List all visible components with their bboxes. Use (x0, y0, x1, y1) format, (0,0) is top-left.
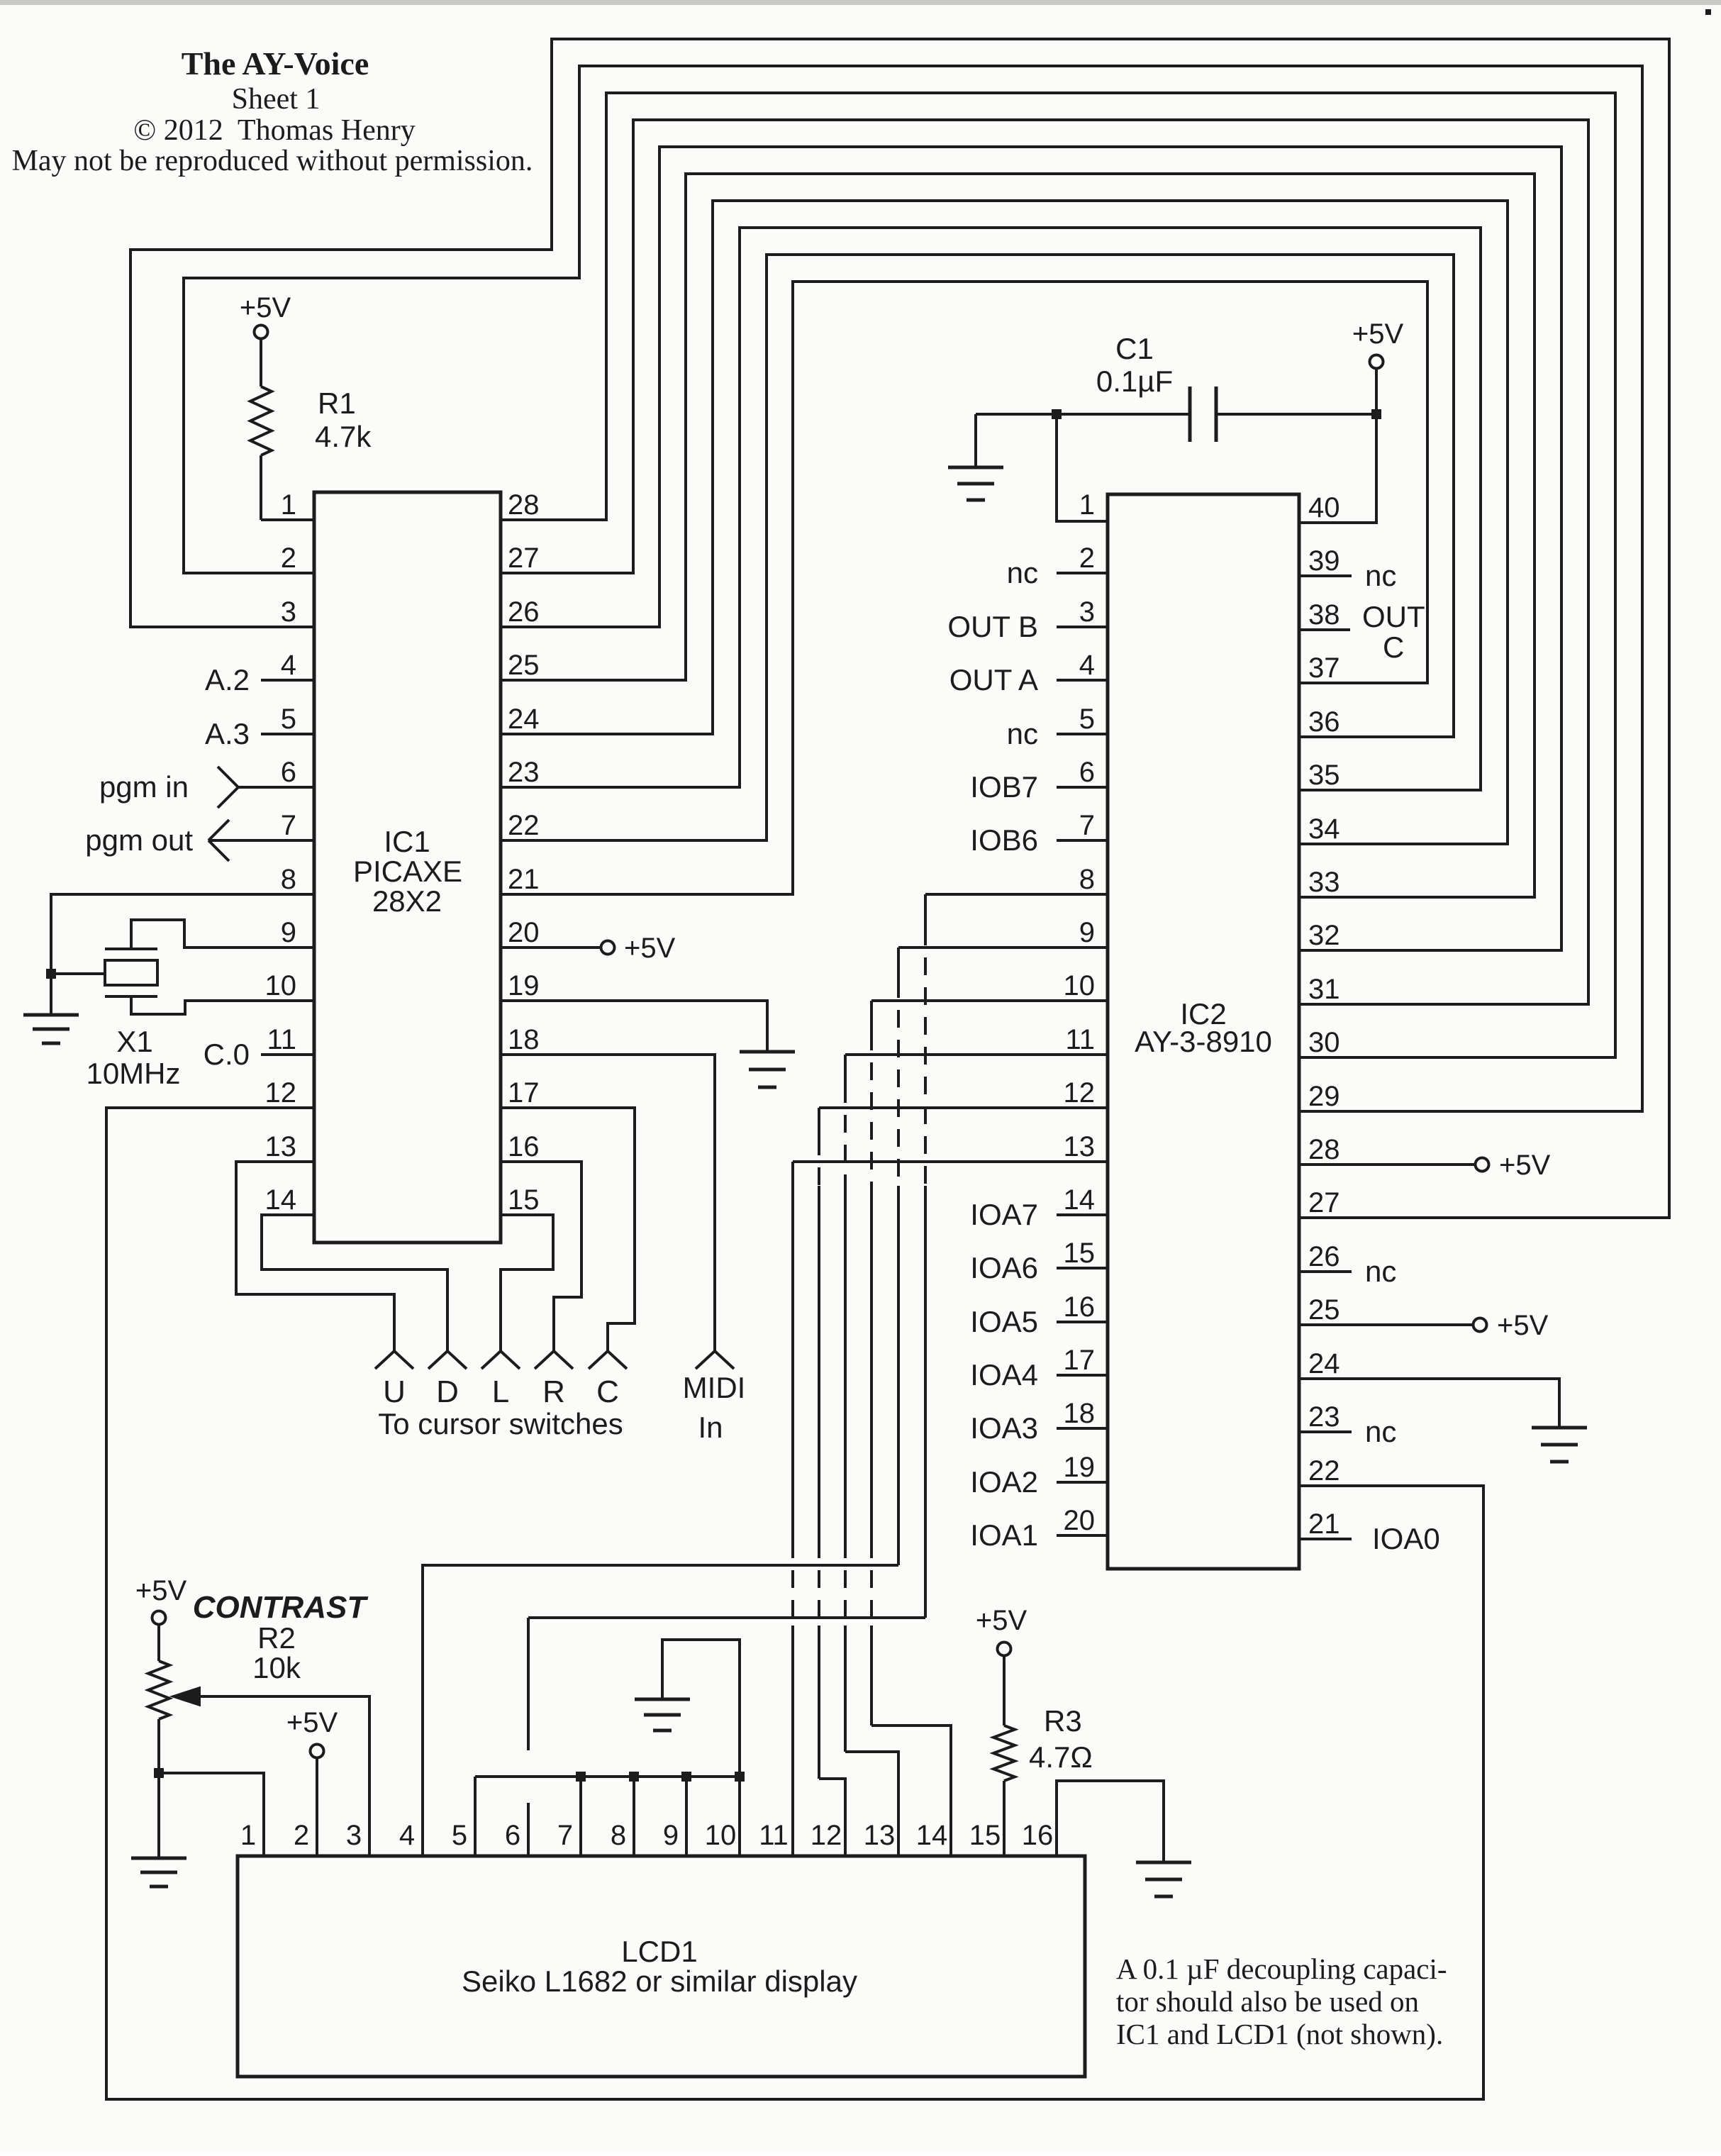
svg-text:4: 4 (399, 1820, 415, 1851)
svg-text:29: 29 (1308, 1081, 1340, 1112)
svg-text:C: C (596, 1374, 619, 1409)
svg-text:IOA1: IOA1 (970, 1518, 1038, 1552)
svg-text:U: U (383, 1374, 406, 1409)
svg-text:+5V: +5V (135, 1575, 187, 1606)
svg-text:31: 31 (1308, 974, 1340, 1005)
svg-text:nc: nc (1365, 1255, 1396, 1288)
svg-text:4: 4 (281, 650, 296, 681)
svg-text:14: 14 (916, 1820, 948, 1851)
svg-text:5: 5 (452, 1820, 467, 1851)
svg-text:nc: nc (1365, 559, 1396, 592)
svg-text:L: L (492, 1374, 509, 1409)
svg-text:26: 26 (1308, 1241, 1340, 1272)
svg-text:20: 20 (508, 917, 540, 948)
svg-text:30: 30 (1308, 1027, 1340, 1058)
svg-text:A.3: A.3 (205, 717, 250, 750)
svg-text:36: 36 (1308, 706, 1340, 738)
svg-text:9: 9 (1079, 917, 1095, 948)
svg-text:R2: R2 (257, 1621, 296, 1655)
svg-text:10: 10 (705, 1820, 737, 1851)
svg-text:13: 13 (265, 1131, 297, 1162)
svg-text:3: 3 (346, 1820, 362, 1851)
svg-text:9: 9 (281, 917, 296, 948)
svg-text:OUT: OUT (1362, 600, 1425, 633)
svg-text:12: 12 (1064, 1077, 1096, 1108)
svg-text:4: 4 (1079, 650, 1095, 681)
svg-text:LCD1: LCD1 (621, 1935, 697, 1968)
svg-text:nc: nc (1365, 1415, 1396, 1448)
svg-text:0.1µF: 0.1µF (1096, 365, 1173, 398)
svg-text:34: 34 (1308, 813, 1340, 845)
svg-text:+5V: +5V (1499, 1150, 1551, 1181)
svg-text:+5V: +5V (1352, 318, 1404, 350)
svg-text:R1: R1 (318, 387, 356, 420)
svg-text:+5V: +5V (1497, 1310, 1549, 1341)
svg-text:4.7k: 4.7k (315, 420, 372, 453)
svg-text:3: 3 (1079, 596, 1095, 628)
svg-text:+5V: +5V (286, 1707, 338, 1738)
svg-text:7: 7 (557, 1820, 573, 1851)
svg-text:C: C (1383, 630, 1404, 664)
svg-text:17: 17 (508, 1077, 540, 1108)
svg-text:18: 18 (1064, 1398, 1096, 1429)
svg-text:AY-3-8910: AY-3-8910 (1135, 1025, 1272, 1058)
svg-text:+5V: +5V (624, 933, 676, 964)
svg-text:38: 38 (1308, 599, 1340, 630)
svg-text:40: 40 (1308, 492, 1340, 523)
svg-text:IOA5: IOA5 (970, 1305, 1038, 1338)
svg-text:18: 18 (508, 1024, 540, 1055)
svg-text:21: 21 (508, 864, 540, 895)
svg-text:pgm out: pgm out (85, 823, 193, 857)
svg-text:39: 39 (1308, 545, 1340, 577)
svg-text:8: 8 (1079, 864, 1095, 895)
svg-text:A.2: A.2 (205, 663, 250, 696)
svg-text:1: 1 (281, 489, 296, 521)
svg-text:D: D (436, 1374, 459, 1409)
svg-text:10k: 10k (252, 1651, 301, 1684)
svg-text:5: 5 (281, 704, 296, 735)
svg-text:R3: R3 (1044, 1704, 1082, 1738)
svg-text:11: 11 (267, 1024, 296, 1055)
svg-text:8: 8 (611, 1820, 626, 1851)
svg-text:23: 23 (508, 757, 540, 788)
svg-text:14: 14 (265, 1184, 297, 1216)
svg-text:R: R (542, 1374, 565, 1409)
svg-text:16: 16 (1022, 1820, 1054, 1851)
svg-text:The AY-Voice: The AY-Voice (182, 45, 369, 82)
svg-text:16: 16 (1064, 1291, 1096, 1323)
svg-text:24: 24 (508, 704, 540, 735)
svg-text:32: 32 (1308, 920, 1340, 951)
svg-text:19: 19 (1064, 1452, 1096, 1483)
svg-text:IOA2: IOA2 (970, 1465, 1038, 1499)
svg-text:1: 1 (1079, 489, 1095, 521)
svg-text:4.7Ω: 4.7Ω (1029, 1740, 1093, 1774)
svg-text:15: 15 (508, 1184, 540, 1216)
svg-text:25: 25 (1308, 1294, 1340, 1326)
svg-text:6: 6 (1079, 757, 1095, 788)
svg-text:PICAXE: PICAXE (353, 855, 462, 888)
svg-text:28: 28 (1308, 1134, 1340, 1165)
svg-text:33: 33 (1308, 867, 1340, 898)
svg-text:2: 2 (281, 543, 296, 574)
svg-text:C.0: C.0 (204, 1038, 250, 1071)
svg-text:24: 24 (1308, 1348, 1340, 1379)
svg-text:7: 7 (281, 810, 296, 841)
svg-text:27: 27 (508, 543, 540, 574)
svg-text:nc: nc (1007, 717, 1038, 750)
svg-text:13: 13 (864, 1820, 896, 1851)
svg-text:2: 2 (1079, 543, 1095, 574)
svg-text:28: 28 (508, 489, 540, 521)
svg-text:6: 6 (281, 757, 296, 788)
svg-text:IOA3: IOA3 (970, 1411, 1038, 1445)
svg-text:X1: X1 (116, 1025, 152, 1058)
svg-text:Seiko L1682 or similar display: Seiko L1682 or similar display (462, 1965, 857, 1998)
svg-text:Sheet 1: Sheet 1 (232, 83, 321, 116)
svg-text:27: 27 (1308, 1187, 1340, 1218)
svg-text:5: 5 (1079, 704, 1095, 735)
svg-text:IOA7: IOA7 (970, 1198, 1038, 1231)
svg-text:2: 2 (294, 1820, 309, 1851)
svg-text:IOB6: IOB6 (970, 823, 1038, 857)
svg-text:© 2012 Thomas Henry: © 2012 Thomas Henry (133, 114, 415, 147)
svg-text:To cursor switches: To cursor switches (378, 1407, 623, 1440)
svg-text:23: 23 (1308, 1401, 1340, 1433)
svg-text:+5V: +5V (976, 1605, 1027, 1636)
svg-text:10: 10 (1064, 970, 1096, 1001)
svg-text:10: 10 (265, 970, 297, 1001)
svg-text:15: 15 (1064, 1238, 1096, 1269)
svg-text:IOA6: IOA6 (970, 1251, 1038, 1284)
svg-text:12: 12 (811, 1820, 842, 1851)
svg-text:May not be reproduced without: May not be reproduced without permission… (12, 145, 533, 177)
svg-text:37: 37 (1308, 652, 1340, 684)
svg-text:35: 35 (1308, 760, 1340, 791)
svg-text:21: 21 (1308, 1508, 1340, 1540)
svg-text:6: 6 (505, 1820, 520, 1851)
svg-text:11: 11 (759, 1820, 789, 1851)
svg-text:28X2: 28X2 (372, 884, 442, 918)
svg-text:16: 16 (508, 1131, 540, 1162)
svg-text:IOA0: IOA0 (1372, 1522, 1440, 1555)
svg-text:nc: nc (1007, 556, 1038, 589)
svg-text:CONTRAST: CONTRAST (193, 1590, 369, 1625)
svg-text:12: 12 (265, 1077, 297, 1108)
svg-text:+5V: +5V (240, 292, 291, 323)
svg-text:C1: C1 (1115, 332, 1154, 365)
svg-text:pgm in: pgm in (99, 770, 189, 804)
svg-text:26: 26 (508, 596, 540, 628)
svg-text:19: 19 (508, 970, 540, 1001)
svg-text:OUT A: OUT A (949, 663, 1038, 696)
svg-text:IC1: IC1 (384, 825, 430, 858)
svg-text:IC1 and LCD1 (not shown).: IC1 and LCD1 (not shown). (1116, 2018, 1443, 2050)
svg-text:9: 9 (663, 1820, 679, 1851)
svg-text:IOB7: IOB7 (970, 770, 1038, 804)
svg-text:22: 22 (1308, 1455, 1340, 1487)
svg-text:OUT B: OUT B (947, 610, 1038, 643)
svg-text:7: 7 (1079, 810, 1095, 841)
svg-text:tor should also be used on: tor should also be used on (1116, 1985, 1419, 2018)
svg-text:IOA4: IOA4 (970, 1358, 1038, 1391)
svg-text:20: 20 (1064, 1505, 1096, 1536)
svg-text:15: 15 (969, 1820, 1001, 1851)
svg-text:22: 22 (508, 810, 540, 841)
svg-text:11: 11 (1065, 1024, 1095, 1055)
svg-text:MIDI: MIDI (683, 1371, 746, 1404)
svg-text:In: In (698, 1411, 723, 1444)
svg-text:14: 14 (1064, 1184, 1096, 1216)
svg-text:3: 3 (281, 596, 296, 628)
svg-text:25: 25 (508, 650, 540, 681)
svg-text:17: 17 (1064, 1345, 1096, 1376)
svg-text:A 0.1 µF decoupling capaci-: A 0.1 µF decoupling capaci- (1116, 1952, 1447, 1985)
svg-text:8: 8 (281, 864, 296, 895)
svg-text:10MHz: 10MHz (86, 1057, 180, 1090)
svg-text:13: 13 (1064, 1131, 1096, 1162)
svg-text:1: 1 (240, 1820, 256, 1851)
